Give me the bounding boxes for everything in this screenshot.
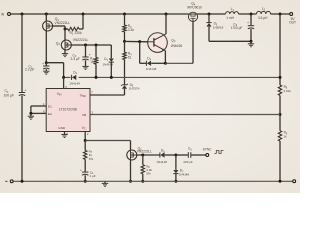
wire Q2 drain <box>64 29 66 40</box>
wire C1 top lead <box>21 14 23 92</box>
wire emitter node to Q4 gate <box>165 62 193 64</box>
terminal IN <box>8 13 11 16</box>
inductor L2 3.6uH <box>257 11 271 14</box>
svg-text:220k: 220k <box>75 31 83 35</box>
wire R4 top lead <box>124 41 126 52</box>
svg-text:1k: 1k <box>283 135 287 139</box>
svg-text:1 µF: 1 µF <box>90 174 96 178</box>
wire R4 bottom lead crossing W1 <box>124 60 126 85</box>
wire divider top <box>279 14 281 85</box>
resistor R2 3.3k <box>123 25 126 32</box>
node R2 top junction <box>123 13 126 16</box>
wire Q2 gate net <box>71 44 111 46</box>
wire GND pin lead <box>64 132 66 135</box>
wire E1-E2 tie <box>30 106 32 113</box>
wire Q5 gate net <box>137 154 160 156</box>
svg-text:GND: GND <box>58 126 66 130</box>
svg-text:1N4148: 1N4148 <box>69 82 80 86</box>
wire R5 to FB node <box>279 95 281 114</box>
wire D3 anode to VSW wire <box>124 89 126 95</box>
diode D2 1N4148 <box>71 75 79 80</box>
transistor Q1 VN2222LL <box>43 21 53 31</box>
paper background <box>0 0 300 193</box>
resistor R6 1k <box>278 131 281 141</box>
resistor R7 1k 5% <box>83 150 86 159</box>
wire Q5 source <box>130 160 132 181</box>
svg-text:2.2 µF: 2.2 µF <box>25 68 34 72</box>
wire E2 pin lead <box>31 112 46 114</box>
diode D5 1N5818 <box>206 22 211 24</box>
node D4 takeoff junction <box>138 40 141 43</box>
terminal bottom left return <box>10 180 13 183</box>
svg-text:100 µF: 100 µF <box>4 94 15 98</box>
svg-text:3.6 µH: 3.6 µH <box>258 16 268 20</box>
svg-text:3.3k: 3.3k <box>128 28 134 32</box>
svg-text:+: + <box>80 169 82 173</box>
node R1/Q2 drain junction <box>64 28 67 31</box>
wire R8 bottom lead <box>142 174 144 182</box>
svg-text:E1: E1 <box>48 104 52 108</box>
node D5 cathode junction <box>208 13 211 16</box>
wire R2 top lead <box>124 14 126 25</box>
node R8 junction <box>141 154 144 157</box>
svg-text:1N5818: 1N5818 <box>213 26 224 30</box>
wire C2 bottom lead <box>45 69 47 71</box>
wire VC to Q5 drain <box>85 140 130 142</box>
svg-text:1N4148: 1N4148 <box>146 67 157 71</box>
ground C6 <box>250 41 252 43</box>
wire C4 bottom lead <box>84 175 86 181</box>
wire W1 VIN-boot net <box>64 76 280 78</box>
ground Q2 source <box>62 53 68 55</box>
svg-text:1 mH: 1 mH <box>226 16 234 20</box>
wire C5 to SYNC terminal <box>191 154 206 156</box>
capacitor C5 200pF <box>187 152 189 158</box>
capacitor C4 <box>82 171 88 173</box>
diode D6 1N4148 <box>159 152 161 157</box>
wire D7 bottom lead <box>175 174 177 181</box>
resistor R1 220k <box>68 27 79 30</box>
terminal bottom right return <box>293 180 296 183</box>
wire R7 top lead <box>84 141 86 151</box>
node R3/W1 junction <box>95 76 98 79</box>
wire R6 bottom lead <box>279 141 281 181</box>
svg-text:FB: FB <box>82 113 86 117</box>
wire E1 pin lead <box>31 105 46 107</box>
wire top rail L1 to L2 <box>239 13 257 15</box>
node C6/D5/ground junction <box>250 40 253 43</box>
node R8/rail junction <box>141 180 144 183</box>
node 5V output junction <box>279 13 282 16</box>
transistor Q2 VN2222LL <box>61 40 71 50</box>
transistor Q4 IRFU9010 <box>188 12 197 21</box>
svg-text:1N4148: 1N4148 <box>179 172 190 176</box>
node Q3 collector junction <box>165 13 168 16</box>
wire D4 anode to emitter node <box>151 62 165 64</box>
node Q5 source/rail junction <box>129 180 132 183</box>
wire node X to Q3 base <box>125 40 149 42</box>
node D7/rail junction <box>174 180 177 183</box>
wire top input rail from IN terminal to Q4 <box>10 13 188 15</box>
IC U1 LT1072CN8 body <box>46 89 90 132</box>
svg-text:5%: 5% <box>146 172 151 176</box>
node Q1 source/C2 junction <box>45 61 48 64</box>
wire C1 bottom lead <box>21 96 23 182</box>
wire Q1 source to VIN node <box>46 62 63 64</box>
wire VIN pin lead <box>63 77 65 88</box>
node C3 junction <box>84 44 87 47</box>
diode D3 zener 1N757A <box>121 84 128 86</box>
node C4/rail junction <box>84 180 87 183</box>
wire Q3 emitter down <box>164 51 166 64</box>
node L1/L2/C6 junction <box>250 13 253 16</box>
node divider/rail junction <box>279 180 282 183</box>
wire C3 top lead <box>85 45 87 57</box>
wire R7 to C4 <box>84 159 86 171</box>
capacitor C2 <box>45 63 47 66</box>
node R3 junction <box>95 44 98 47</box>
node E2 ground junction <box>29 112 32 115</box>
svg-text:SYNC: SYNC <box>203 148 213 152</box>
wire C3 bottom lead <box>85 60 87 66</box>
wire Q1 gate lead <box>53 25 65 27</box>
wire R3 top lead <box>95 45 97 57</box>
ground E1/E2 <box>30 113 32 116</box>
diode D4 1N4148 <box>145 61 147 66</box>
wire D1 bottom lead <box>110 62 112 77</box>
svg-text:+: + <box>24 89 26 93</box>
wire D7 down lead <box>175 155 177 170</box>
svg-text:+: + <box>247 21 249 25</box>
wire D5 anode to C6 bottom node <box>208 27 210 42</box>
wire D7 node to C5 <box>176 154 188 156</box>
terminal 5V OUT <box>290 13 293 16</box>
node D1/W1 junction <box>110 76 113 79</box>
ground bottom rail <box>104 181 106 183</box>
wire FB net <box>90 114 280 116</box>
capacitor C3 <box>82 56 88 58</box>
resistor R4 51 <box>123 52 126 59</box>
svg-text:1N757A: 1N757A <box>129 87 140 91</box>
resistor R5 3.01k <box>278 85 281 95</box>
wire C6 bottom lead <box>250 29 252 41</box>
wire R2 bottom lead <box>124 32 126 41</box>
wire VC pin lead <box>84 132 86 141</box>
svg-text:1700 µF: 1700 µF <box>231 26 243 30</box>
wire R1 to top rail <box>82 14 84 29</box>
wire Q2 source <box>64 50 66 53</box>
svg-text:E2: E2 <box>48 112 52 116</box>
svg-text:1N4148: 1N4148 <box>156 160 167 164</box>
ground C3 <box>82 65 88 67</box>
node Q3 emitter junction <box>164 62 167 65</box>
inductor L1 1mH <box>226 12 239 14</box>
capacitor C1 <box>19 92 25 94</box>
svg-text:3.3 µF: 3.3 µF <box>71 57 80 61</box>
transistor Q5 VN2222LL <box>127 150 137 160</box>
diode D7 1N4148 <box>173 170 178 173</box>
ground C2 <box>43 70 49 72</box>
capacitor C6 <box>248 25 254 27</box>
node C1/rail junction <box>21 180 24 183</box>
svg-text:5%: 5% <box>89 157 94 161</box>
svg-text:OUT: OUT <box>289 21 296 25</box>
wire Q1 source <box>45 31 47 63</box>
svg-text:LT1072CN8: LT1072CN8 <box>59 108 77 112</box>
svg-text:51: 51 <box>128 55 132 59</box>
wire Q3 collector to rail <box>165 14 167 34</box>
wire R3 bottom lead <box>95 64 97 77</box>
diode D1 1N4148 <box>109 59 114 62</box>
wire top rail Q4 to L1 <box>197 13 225 15</box>
wire D4 vertical drop <box>139 42 141 64</box>
svg-text:200 pF: 200 pF <box>183 160 193 164</box>
wire D1 top lead <box>110 45 112 58</box>
transistor Q3 2N6426 <box>148 33 168 53</box>
svg-text:IRFU9010: IRFU9010 <box>187 6 202 10</box>
wire bottom ground rail <box>13 180 293 182</box>
node W1 output junction <box>279 76 282 79</box>
svg-text:VN2222LL: VN2222LL <box>137 150 152 154</box>
node R1 top junction <box>82 13 85 16</box>
svg-text:VN2222LL: VN2222LL <box>55 21 71 25</box>
wire Q1 drain <box>45 14 47 21</box>
svg-text:VN2222LL: VN2222LL <box>73 38 89 42</box>
svg-text:3.01k: 3.01k <box>283 89 291 93</box>
resistor R3 1M <box>94 57 97 64</box>
wire C6 top lead <box>250 14 252 25</box>
svg-text:2N6426: 2N6426 <box>171 44 183 48</box>
svg-text:+: + <box>42 62 44 66</box>
node X junction R2/R4/base wire <box>123 40 126 43</box>
label SYNC waveform glyph <box>215 151 224 154</box>
node VC junction <box>84 139 87 142</box>
wire D6 anode to D7 node <box>165 154 176 156</box>
node VIN junction <box>62 76 65 79</box>
wire top rail L2 to output terminal <box>271 13 290 15</box>
terminal SYNC <box>206 154 209 157</box>
wire D5 top lead <box>208 14 210 22</box>
node Q1 drain junction <box>45 13 48 16</box>
resistor R8 2.2k 5% <box>141 165 144 174</box>
node FB junction <box>279 113 282 116</box>
wire R8 top lead <box>142 155 144 165</box>
svg-text:1M: 1M <box>90 60 95 64</box>
ground U1 GND pin <box>61 134 67 136</box>
wire R6 top lead <box>279 115 281 131</box>
node input junction to C1 <box>21 13 24 16</box>
node D7 junction <box>174 154 177 157</box>
